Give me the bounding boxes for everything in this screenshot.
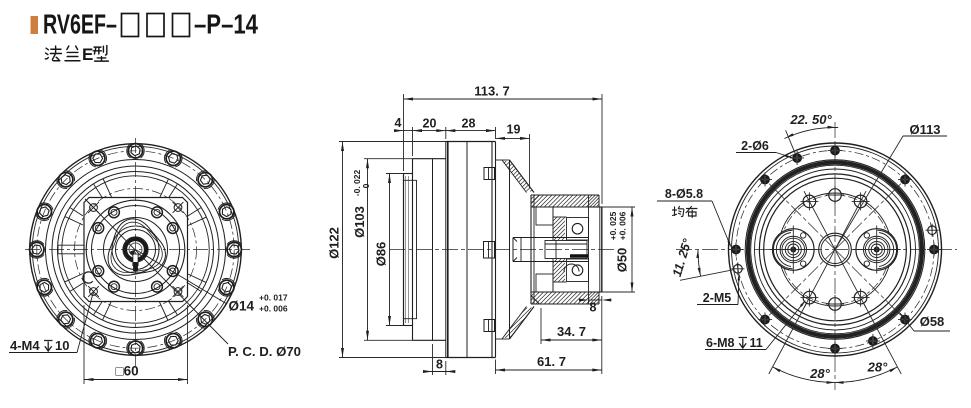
centerline xyxy=(390,249,614,251)
16 socket head bolts xyxy=(227,242,241,256)
dim Ø50 xyxy=(602,206,635,208)
svg-text:Ø86: Ø86 xyxy=(374,242,389,267)
svg-text:+0. 025: +0. 025 xyxy=(608,211,618,240)
svg-text:28°: 28° xyxy=(867,360,888,375)
dim 22.50deg xyxy=(784,127,838,138)
svg-text:34. 7: 34. 7 xyxy=(557,324,586,339)
C mark xyxy=(83,272,93,283)
dims 28deg xyxy=(773,367,898,383)
output housing xyxy=(530,195,532,304)
casing ribs xyxy=(188,217,206,225)
dim 11.25deg xyxy=(698,250,701,277)
svg-text:Ø50: Ø50 xyxy=(615,248,630,273)
body outline horizontals xyxy=(446,141,496,143)
svg-text:Ø14: Ø14 xyxy=(229,299,255,314)
centerlines xyxy=(25,249,250,251)
left tab on plate xyxy=(58,244,84,246)
svg-text:+0. 006: +0. 006 xyxy=(259,304,288,314)
svg-text:Ø122: Ø122 xyxy=(327,227,342,259)
leader to P.C.D. xyxy=(85,199,228,344)
svg-text:113. 7: 113. 7 xyxy=(474,84,509,99)
svg-text:22. 50°: 22. 50° xyxy=(789,112,832,127)
outer flange circles xyxy=(30,144,242,356)
inner step blocks xyxy=(536,207,553,225)
input hole dark ring xyxy=(123,237,148,262)
svg-text:8: 8 xyxy=(590,301,597,315)
output spigot Ø50 xyxy=(589,206,602,208)
P.C.D. 70 dashed circle xyxy=(75,189,197,311)
bolt circle dashed xyxy=(37,151,234,348)
hub circles xyxy=(112,226,159,273)
svg-text:□60: □60 xyxy=(116,364,139,379)
dims 4 20 28 xyxy=(412,127,414,156)
subtitle 法兰E型 xyxy=(45,45,108,64)
svg-text:Ø58: Ø58 xyxy=(920,314,945,329)
svg-text:-0. 022: -0. 022 xyxy=(352,169,362,196)
flange circles xyxy=(729,143,942,356)
bore lines through housing xyxy=(531,206,589,208)
svg-text:Ø103: Ø103 xyxy=(352,206,367,238)
svg-text:20: 20 xyxy=(423,117,437,131)
body outline verticals xyxy=(403,174,405,326)
svg-text:10: 10 xyxy=(55,338,69,353)
4-M4 corner holes xyxy=(90,204,98,212)
svg-text:+0. 017: +0. 017 xyxy=(259,293,288,303)
cone section xyxy=(496,159,510,161)
dim 19 xyxy=(529,134,531,188)
bolt circle Ø113 dashed xyxy=(736,151,934,349)
svg-text:61. 7: 61. 7 xyxy=(537,354,566,369)
leader to Ø14 xyxy=(136,250,228,305)
svg-text:4: 4 xyxy=(395,116,402,130)
svg-text:8: 8 xyxy=(436,358,443,372)
dim 61.7 xyxy=(495,360,497,375)
middle view: section xyxy=(327,84,636,376)
svg-text:8-Ø5.8: 8-Ø5.8 xyxy=(665,187,703,201)
title block xyxy=(31,9,259,40)
dim square60 xyxy=(83,305,85,384)
dim 34.7 xyxy=(540,308,542,344)
input gear ports (2) xyxy=(773,229,815,271)
top dims 113.7 xyxy=(403,94,405,171)
M8 circle dashed xyxy=(781,195,890,304)
dim 8 right xyxy=(588,294,590,304)
svg-text:Ø113: Ø113 xyxy=(909,122,940,137)
6-M8 holes xyxy=(854,195,867,208)
side tabs xyxy=(484,168,495,180)
centerlines xyxy=(676,249,957,251)
dim Ø103 xyxy=(364,158,413,160)
dim Ø86 xyxy=(386,173,404,175)
cycloid cam lobes xyxy=(108,219,165,275)
shaft center xyxy=(513,237,589,239)
2-M5 crosshair holes xyxy=(734,265,743,274)
svg-text:11: 11 xyxy=(750,336,763,350)
inner flange circles xyxy=(86,200,185,299)
svg-text:RV6EF–: RV6EF– xyxy=(43,9,117,40)
svg-text:P. C. D. Ø70: P. C. D. Ø70 xyxy=(228,344,301,359)
svg-text:28°: 28° xyxy=(809,366,830,381)
housing corner chamfers xyxy=(531,195,540,204)
svg-text:+0. 006: +0. 006 xyxy=(618,211,628,240)
diagonal centerlines xyxy=(835,176,909,250)
svg-text:19: 19 xyxy=(507,123,521,137)
left view: flange front xyxy=(9,138,301,384)
svg-text:0: 0 xyxy=(361,183,371,188)
label Ø113 xyxy=(835,136,903,250)
svg-text:4-M4: 4-M4 xyxy=(10,338,40,353)
8 inner socket bolts xyxy=(167,223,178,234)
svg-text:E: E xyxy=(82,45,93,64)
8xØ5.8 + 2xØ6 dark holes xyxy=(929,245,939,255)
svg-text:2-Ø6: 2-Ø6 xyxy=(741,139,769,153)
bearings xyxy=(567,218,589,241)
dim Ø122 xyxy=(339,141,446,143)
center bore xyxy=(819,233,852,266)
svg-text:28: 28 xyxy=(462,117,476,131)
svg-text:–P–14: –P–14 xyxy=(194,9,259,40)
radials to M8 holes xyxy=(835,191,866,249)
right view: output flange xyxy=(657,112,957,390)
dim 8 bottom-left xyxy=(432,344,434,375)
svg-text:6-M8: 6-M8 xyxy=(706,336,735,350)
square mounting plate 60 xyxy=(84,198,188,302)
svg-text:2-M5: 2-M5 xyxy=(703,291,732,305)
keyway slot xyxy=(133,254,138,266)
